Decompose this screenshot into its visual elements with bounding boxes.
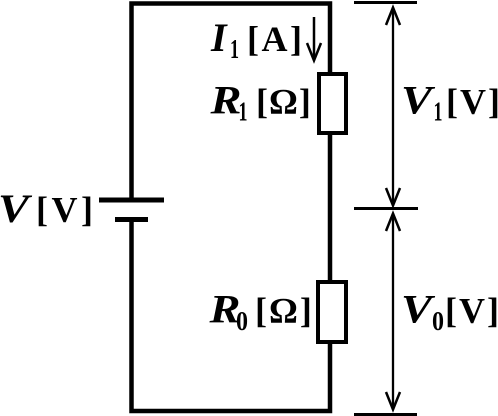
label V [V] (source voltage) [0,186,96,231]
V0 measurement double arrow [386,214,400,410]
battery V: short plate [115,217,148,222]
svg-text:0: 0 [236,306,248,336]
wire right middle segment between R1 and R0 [328,135,333,280]
resistor R1 [319,74,346,133]
wire bottom loop: right lower + bottom + left lower [132,222,331,411]
label R1 [ohm] [209,78,311,127]
svg-text:0: 0 [432,306,444,336]
svg-text:1: 1 [239,97,248,127]
svg-text:R: R [209,78,241,123]
tick middle (between V1 and V0) [354,207,418,210]
current arrow I1 [307,17,321,61]
label I1 [A] (current) [210,15,304,64]
V1 measurement double arrow [386,8,400,206]
svg-text:[V]: [V] [445,291,498,331]
svg-text:[A]: [A] [247,19,304,59]
wire top loop: left upper + top + right upper [132,4,331,199]
label R0 [ohm] [208,287,313,337]
svg-text:I: I [210,15,228,60]
svg-text:[V]: [V] [36,190,96,230]
svg-text:1: 1 [434,97,443,127]
svg-text:[Ω]: [Ω] [255,291,314,331]
svg-text:[Ω]: [Ω] [256,82,312,122]
battery V (voltage source): long plate [99,198,164,203]
svg-text:V: V [401,78,436,123]
tick top (V1 upper reference) [354,1,417,4]
svg-text:[V]: [V] [446,82,498,122]
svg-text:V: V [401,287,436,332]
resistor R0 [318,282,346,342]
label V0 [V] [401,287,498,337]
svg-text:V: V [0,186,33,231]
svg-text:1: 1 [230,34,239,64]
tick bottom (V0 lower reference) [354,413,417,416]
label V1 [V] [401,78,498,127]
